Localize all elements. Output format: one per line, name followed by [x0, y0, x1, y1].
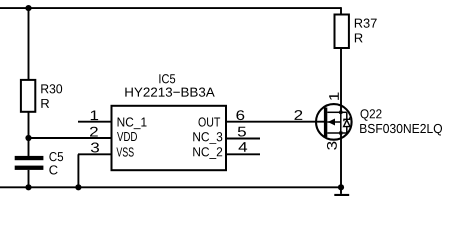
wire VDD node to IC pin 2: [29, 137, 112, 139]
label IC5: [159, 74, 175, 83]
label Q22: [361, 109, 382, 121]
junction bottom VSS node: [75, 184, 81, 190]
wire bottom net: [0, 186, 341, 188]
pin name NC_2: [193, 147, 222, 159]
label HY2213-BB3A: [125, 88, 214, 97]
wire Q22 source to bottom net: [340, 133, 342, 187]
pin number 2 Q22 gate: [295, 110, 303, 120]
pin 4 NC_2: [226, 142, 260, 154]
resistor R37: [335, 15, 349, 49]
pin 6 OUT wire to Q22 gate: [226, 110, 324, 121]
junction bottom-left node: [25, 184, 31, 190]
pin 2 VDD: [78, 127, 112, 138]
pin number 1 Q22 drain: [329, 93, 339, 100]
wire C5 to bottom net: [28, 170, 30, 187]
wire top node down to R30: [28, 8, 30, 80]
label BSF030NE2LQ: [360, 124, 442, 136]
junction top-left node: [25, 5, 31, 11]
IC IC5 body: [112, 106, 227, 170]
pin name NC_1: [118, 117, 147, 129]
pin 5 NC_3: [226, 127, 260, 139]
transistor Q22: [316, 104, 352, 140]
pin name VSS: [116, 147, 133, 156]
label R30: [41, 84, 62, 93]
wire top net from left edge to R37: [0, 7, 341, 14]
label R37 value R: [355, 33, 363, 42]
wire IC pin 3 VSS down to bottom net: [77, 154, 79, 187]
capacitor C5: [15, 156, 44, 170]
ground: [334, 187, 349, 196]
pin name NC_3: [193, 132, 222, 144]
label R37: [355, 19, 377, 28]
pin 3 VSS: [78, 143, 112, 155]
pin 1 NC_1: [78, 110, 112, 121]
label R30 value R: [41, 99, 49, 108]
pin number 3 Q22 source: [327, 142, 337, 150]
junction bottom-right node: [338, 184, 344, 190]
label C5 value C: [49, 165, 57, 174]
wire R30 to C5: [28, 112, 30, 156]
resistor R30: [21, 80, 35, 112]
junction node VDD: [25, 135, 31, 141]
pin name OUT: [199, 117, 221, 126]
wire R37 to Q22 drain: [340, 48, 342, 112]
label C5: [49, 152, 63, 161]
pin name VDD: [117, 132, 137, 141]
